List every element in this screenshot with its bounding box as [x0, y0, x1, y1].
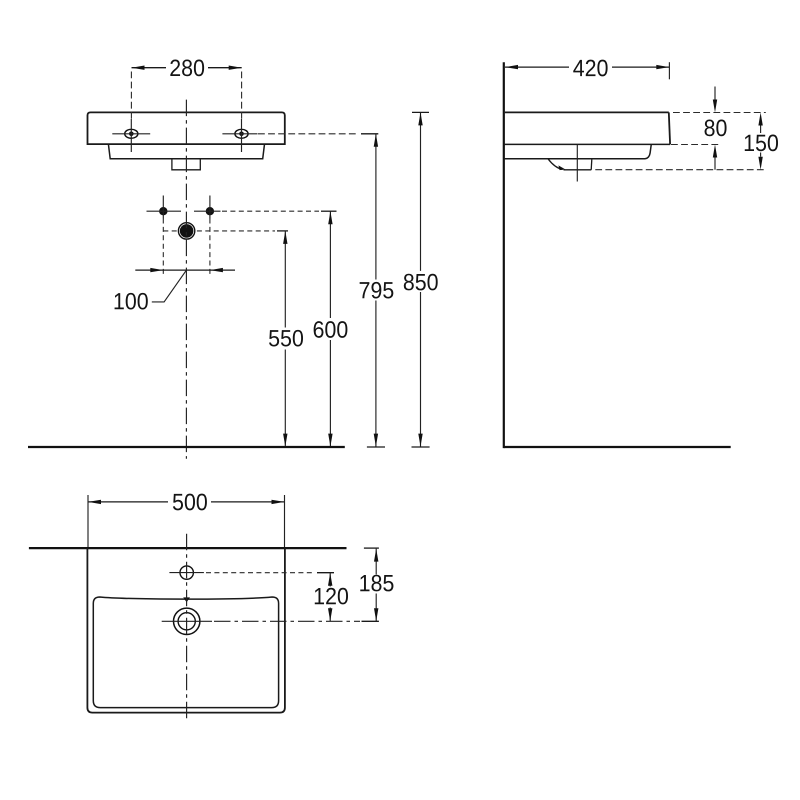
dimension 120 vertical line — [329, 573, 331, 587]
dimension 795 label — [356, 281, 397, 300]
dimension 795 floor bar — [367, 446, 385, 448]
left bolt dot — [147, 196, 182, 219]
dimension 500 left extension line — [87, 495, 89, 547]
dimension 420 left arrow — [505, 65, 518, 69]
dimension 550 top arrow — [283, 231, 287, 244]
drain trap curve (side) — [548, 159, 563, 170]
small arrow at inner rim center — [183, 597, 190, 602]
front centerline — [185, 100, 187, 459]
basin side profile: rim bottom edge — [504, 143, 670, 145]
dimension 280 label — [166, 58, 208, 77]
dimension 100 label — [115, 293, 148, 310]
dimension 500 line — [88, 501, 285, 503]
dash-dot from drain to 185 dimension — [214, 620, 360, 622]
dimension 550 bottom arrow — [283, 434, 287, 447]
dimension 150 top arrow — [758, 113, 762, 126]
dimension 420 right arrow — [656, 65, 669, 69]
dimension 500 left arrow — [88, 500, 101, 504]
terminal bar at 550 top — [277, 230, 288, 232]
dashed line right of rim bottom — [671, 144, 719, 146]
dimension 185 vertical line — [375, 549, 377, 575]
dimension 850 floor bar — [412, 446, 430, 448]
dimension 600 label — [310, 320, 350, 339]
dimension 850 label — [400, 272, 441, 291]
dimension 280 extension dashed left — [130, 72, 132, 120]
dimension 550 vertical line — [284, 231, 286, 328]
dimension 850 bottom arrow — [418, 434, 422, 447]
dimension 120 top arrow — [328, 573, 332, 586]
dashed line right of drain boss bottom — [595, 169, 766, 171]
basin rim rectangle (front) — [88, 112, 285, 144]
dimension 550 label — [266, 329, 306, 348]
dimension 500 label — [168, 493, 211, 512]
dimension 795 top arrow — [374, 134, 378, 147]
dimension 100 right arrow (pointing left) — [210, 268, 223, 272]
dimension 600 top arrow — [328, 211, 332, 224]
front drain hole circle — [178, 223, 194, 239]
faucet hole (plan) — [180, 566, 193, 579]
dimension 280 left arrow — [132, 66, 145, 70]
dimension 850 top arrow — [418, 112, 422, 125]
dimension 420 label — [569, 58, 612, 77]
basin side profile: right edge — [669, 112, 670, 144]
terminal bar at 185 bottom — [362, 620, 379, 622]
dimension 120 bottom arrow — [328, 608, 332, 621]
dashed vertical below left bolt dot — [162, 219, 164, 275]
dimension 280 right arrow — [229, 66, 242, 70]
basin side bowl bottom with rounded right corner — [504, 145, 651, 159]
dashed line right of basin top edge — [673, 112, 766, 114]
dimension 150 label — [740, 134, 782, 153]
dimension 280 line — [132, 67, 242, 69]
plan basin inner bowl outline — [93, 597, 278, 708]
faucet hole crosshair — [169, 572, 204, 574]
dimension 795 vertical line — [375, 134, 377, 280]
dimension 150 vertical line — [760, 126, 762, 134]
dimension 420 line — [505, 66, 669, 68]
terminal bar at 795 top — [361, 133, 378, 135]
dimension 185 top arrow — [374, 549, 378, 562]
dimension 80 upper line and arrow (pointing down) — [714, 87, 716, 100]
dashed line from drain circle to 550 dimension — [163, 230, 275, 232]
basin side profile: top edge — [505, 111, 669, 113]
dashed line from right bolt dot to 600 dimension — [222, 210, 319, 212]
dimension 795 bottom arrow — [374, 434, 378, 447]
plan wall line — [29, 547, 347, 549]
front floor line — [28, 446, 345, 448]
side floor line — [504, 446, 731, 448]
dimension 185 bottom arrow — [374, 608, 378, 621]
dimension 185 label — [356, 575, 398, 594]
drain boss bottom edge (side) — [564, 169, 592, 171]
dimension 600 vertical line — [329, 211, 331, 318]
dash-dot from faucet hole to 120 dimension — [206, 572, 314, 574]
dimension 80 lower arrow (pointing up) and line — [713, 145, 717, 158]
drain axis line (side) — [576, 145, 578, 182]
dimension 100 line — [135, 269, 235, 271]
dimension 120 label — [310, 588, 352, 607]
terminal bar at 120 top — [317, 572, 334, 574]
right bolt dot — [194, 196, 221, 219]
dimension 100 left arrow (pointing right) — [150, 268, 163, 272]
basin lower body trapezoid (front) — [108, 144, 264, 159]
dimension 80 label — [705, 120, 727, 137]
left mounting hole — [112, 119, 150, 152]
dimension 600 bottom arrow — [328, 434, 332, 447]
dimension 850 top bar — [412, 111, 429, 113]
leader line for 100 label — [152, 270, 187, 302]
drain box under basin (front) — [172, 159, 200, 170]
terminal bar at 600 top — [321, 210, 337, 212]
dashed line from right hole to 795 dimension — [258, 133, 359, 135]
dimension 280 extension dashed right — [241, 72, 243, 120]
dimension 850 vertical line — [420, 112, 422, 271]
drain hole circles (plan) — [174, 608, 200, 634]
drain boss right edge (side) — [590, 160, 593, 170]
right mounting hole — [222, 119, 257, 152]
dimension 150 bottom arrow — [758, 157, 762, 170]
dimension 500 right extension line — [284, 495, 286, 547]
dimension 185 top bar — [364, 547, 379, 549]
wall line — [503, 62, 505, 448]
plan vertical centerline — [186, 534, 188, 722]
plan basin outer outline — [87, 548, 285, 713]
dimension 420 right extension line — [668, 62, 670, 79]
drain crosshair (plan) — [162, 620, 212, 622]
drain trap curve arrowhead — [558, 165, 565, 170]
dimension 500 right arrow — [272, 500, 285, 504]
dashed vertical below right bolt dot — [209, 219, 211, 275]
